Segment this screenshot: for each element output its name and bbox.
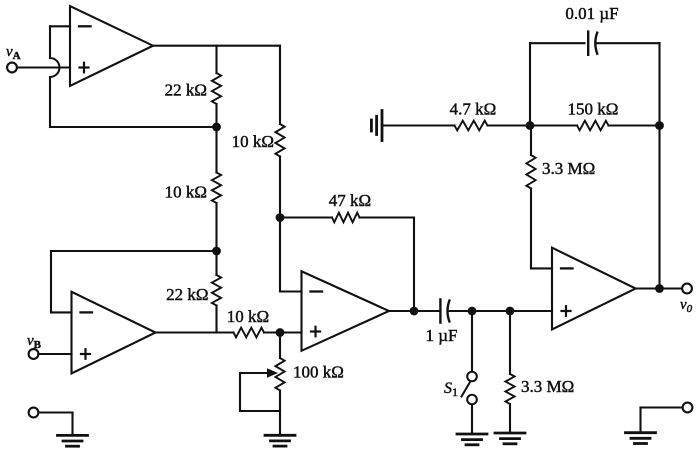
capacitor C2 0.01 &#181;F: [587, 32, 589, 55]
wire U1 feedback vertical lower: [49, 77, 51, 127]
svg-text:3.3 MΩ: 3.3 MΩ: [521, 377, 574, 396]
node K junction: [655, 121, 664, 130]
svg-text:10 kΩ: 10 kΩ: [227, 307, 269, 326]
wire terminal to ground corner: [641, 406, 683, 408]
ground (bottom-right): [626, 431, 656, 434]
wire R3 to U3 output line: [215, 306, 217, 333]
wire U1 output: [153, 45, 280, 47]
svg-text:vA: vA: [6, 44, 21, 62]
resistor R11 150 k&#937;: [577, 121, 609, 131]
svg-text:4.7 kΩ: 4.7 kΩ: [450, 100, 497, 119]
potentiometer wiper arrow: [240, 372, 269, 374]
wire U3 - input stub: [51, 311, 72, 313]
ground (under potentiometer): [265, 434, 295, 437]
wire corner down: [71, 413, 73, 436]
wire node C to R5: [280, 216, 332, 218]
node D junction (U4 output): [410, 307, 419, 316]
wire to U4 - input: [280, 290, 302, 292]
node C junction: [276, 213, 285, 222]
wire wiper to pot bottom: [240, 410, 280, 412]
ground (under S1): [457, 433, 487, 436]
wire switch to ground: [471, 405, 473, 434]
capacitor C1 1 &#181;F: [439, 299, 441, 322]
svg-text:v0: v0: [680, 297, 693, 315]
terminal (bottom-left ground reference): [29, 408, 39, 418]
svg-text:S1: S1: [444, 380, 458, 399]
op-amp U5 (output stage): [552, 248, 636, 330]
terminal vA (input): [7, 63, 17, 73]
resistor R5 47 k&#937; (U4 feedback): [332, 213, 360, 223]
wire node H to R11: [530, 124, 577, 126]
wire R11 to node K: [609, 124, 660, 126]
wire U5 - up to R9: [530, 189, 532, 269]
svg-text:47 kΩ: 47 kΩ: [329, 191, 371, 210]
resistor R3 22 k&#937; (bottom): [212, 275, 221, 306]
wire U3 output: [156, 331, 234, 333]
wire pot to ground: [279, 391, 281, 436]
wire U1 - input stub: [50, 25, 70, 27]
wire R6 to node E: [264, 331, 302, 333]
wire node C down to U4 - level: [279, 218, 281, 292]
wire wiper down: [239, 373, 241, 411]
wire node G to U5 + input: [510, 310, 552, 312]
node B2 junction: [212, 247, 221, 256]
wire vA to U1 + input: [17, 66, 70, 68]
resistor R9 3.3 M&#937; (feedback): [526, 155, 535, 189]
wire R4 down to node C: [279, 157, 281, 218]
node J junction (vo): [655, 284, 664, 293]
switch S1 blade: [462, 382, 471, 397]
wire U3 feedback vertical: [50, 251, 52, 312]
wire node H up to C2: [529, 43, 531, 125]
wire C2 right segment: [598, 42, 660, 44]
wire node F down to switch S1: [471, 311, 473, 371]
resistor R2 10 k&#937; (chain1): [212, 173, 221, 204]
wire R10 to node H: [488, 124, 531, 126]
node B1 junction: [212, 123, 221, 132]
resistor R10 4.7 k&#937;: [455, 121, 488, 131]
op-amp U1 (top-left, input vA buffer): [70, 6, 153, 86]
resistor R6 10 k&#937; (horizontal): [234, 328, 265, 338]
svg-text:150 kΩ: 150 kΩ: [568, 100, 619, 119]
ground (under R8): [495, 432, 525, 435]
wire R9 to node H: [530, 126, 532, 156]
resistor R4 10 k&#937; (chain2): [275, 124, 284, 157]
wire node K down to vo node: [658, 43, 660, 288]
svg-text:22 kΩ: 22 kΩ: [166, 285, 208, 304]
switch S1 bottom contact: [467, 395, 477, 405]
wire node B2 to R3: [215, 251, 217, 275]
wire feedback down to U4 output: [413, 218, 415, 312]
svg-text:3.3 MΩ: 3.3 MΩ: [542, 159, 595, 178]
resistor R1 22 k&#937; (top): [212, 73, 221, 104]
op-amp U4 (middle): [302, 271, 390, 351]
ground (bottom-left): [58, 434, 88, 437]
op-amp U3 (bottom-left, input vB buffer): [72, 292, 156, 374]
wire ground to R10: [382, 124, 455, 126]
svg-text:100 kΩ: 100 kΩ: [293, 363, 344, 382]
terminal vB (input): [29, 349, 39, 359]
wire node F to node G: [472, 310, 510, 312]
wire hop over vA wire: [50, 58, 59, 77]
wire U1 feedback vertical upper: [49, 26, 51, 58]
wire node E down to potentiometer: [279, 333, 281, 359]
switch S1 top contact: [467, 372, 477, 382]
svg-text:1 µF: 1 µF: [426, 326, 458, 345]
wire U1 output corner down: [279, 46, 281, 124]
wire U5 output: [636, 287, 682, 289]
node G junction: [506, 307, 515, 316]
wire R5 to right vertical: [360, 216, 415, 218]
wire U4 output to node F: [449, 310, 472, 312]
terminal vo (output): [682, 284, 692, 294]
wire corner down: [639, 408, 641, 433]
wire vB to U3 + input: [39, 353, 72, 355]
wire U1 output down to R1: [215, 46, 217, 73]
wire R2 to node B2: [215, 203, 217, 251]
ground (sideways, left of R10): [381, 111, 384, 141]
node H junction: [526, 121, 535, 130]
wire terminal to ground corner: [39, 411, 73, 413]
svg-text:10 kΩ: 10 kΩ: [165, 183, 207, 202]
svg-text:22 kΩ: 22 kΩ: [165, 81, 207, 100]
svg-text:10 kΩ: 10 kΩ: [232, 132, 274, 151]
wire C2 left segment: [530, 42, 585, 44]
svg-text:0.01 µF: 0.01 µF: [565, 4, 618, 23]
resistor R8 3.3 M&#937; (to ground): [505, 374, 514, 404]
wire R8 to ground: [509, 404, 511, 433]
wire U1 feedback horizontal to node B1: [50, 126, 217, 128]
wire U5 - input stub: [531, 267, 552, 269]
node E junction (U4 + input): [276, 328, 285, 337]
wire U3 feedback horizontal to node B2: [51, 250, 217, 252]
svg-text:vB: vB: [27, 333, 42, 351]
potentiometer R7 100 k&#937; element: [275, 358, 284, 391]
wire node G down to R8: [509, 311, 511, 374]
terminal (bottom-right ground reference): [683, 403, 693, 413]
wire R1 to node B1: [215, 104, 217, 127]
wire node B1 to R2: [215, 127, 217, 173]
wire U4 output: [389, 310, 441, 312]
node F junction: [468, 307, 477, 316]
